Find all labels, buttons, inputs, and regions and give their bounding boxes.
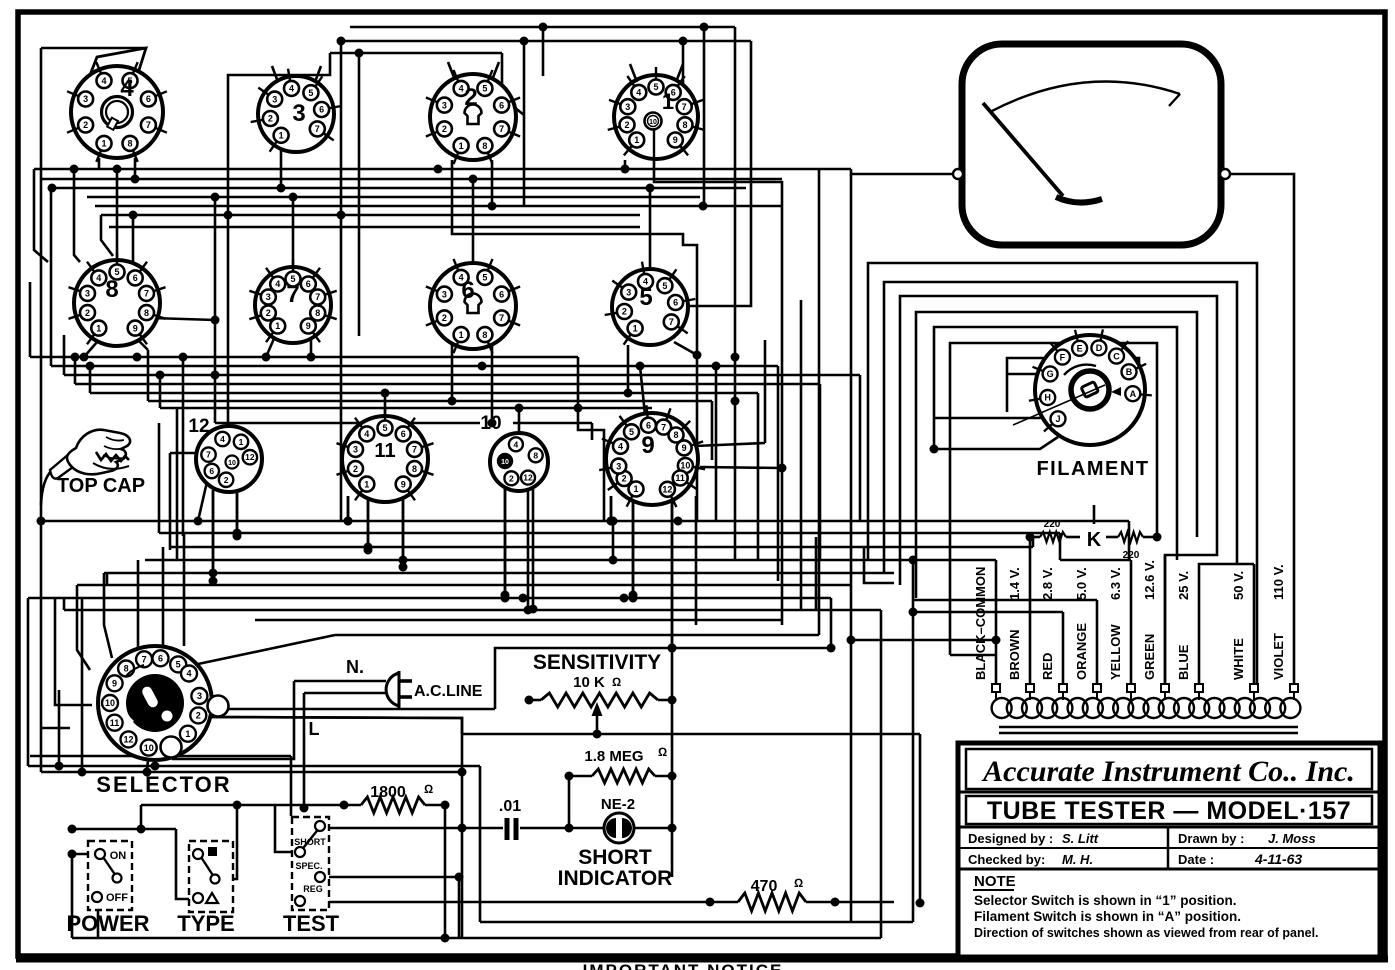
wire <box>518 408 521 433</box>
wire <box>304 901 738 904</box>
wire bus A5 <box>90 392 758 395</box>
wire <box>612 521 615 560</box>
wire bus B1 <box>41 520 1129 523</box>
wire <box>711 401 714 460</box>
svg-text:1: 1 <box>633 323 638 333</box>
socket lead <box>315 66 321 82</box>
wire <box>74 357 77 384</box>
svg-text:6: 6 <box>461 277 474 304</box>
wire <box>504 486 507 598</box>
svg-text:8: 8 <box>124 664 129 674</box>
wire <box>147 749 149 771</box>
wire <box>632 500 635 595</box>
wire <box>425 804 445 807</box>
svg-text:12: 12 <box>188 416 209 437</box>
wire <box>1093 505 1096 524</box>
svg-text:12: 12 <box>523 473 533 483</box>
svg-text:12: 12 <box>245 452 255 462</box>
wire <box>280 150 283 188</box>
svg-text:2: 2 <box>268 114 273 124</box>
wire <box>695 496 698 625</box>
wire <box>74 169 80 262</box>
wire <box>72 828 176 831</box>
svg-text:3: 3 <box>292 100 305 127</box>
title block <box>958 743 1380 957</box>
wire bus B7 <box>28 597 831 600</box>
wire <box>97 904 100 938</box>
wire bus R3 <box>52 187 746 190</box>
wire <box>304 692 386 695</box>
wire <box>815 537 818 610</box>
wire <box>141 804 361 807</box>
svg-text:8: 8 <box>482 330 487 340</box>
wire <box>1062 612 1065 685</box>
svg-text:4: 4 <box>459 84 464 94</box>
wire <box>568 776 571 828</box>
ac line plug <box>386 673 399 706</box>
tube socket 1 <box>614 75 698 159</box>
svg-text:11: 11 <box>110 718 120 728</box>
wire <box>335 634 819 637</box>
top cap hand <box>50 448 84 479</box>
svg-text:9: 9 <box>306 321 311 331</box>
wire top bus 3 <box>330 52 502 55</box>
wire <box>764 340 767 443</box>
svg-text:J: J <box>1056 414 1061 424</box>
wire <box>452 160 697 521</box>
svg-text:6: 6 <box>673 298 678 308</box>
wire <box>72 854 94 938</box>
wire <box>158 423 161 533</box>
svg-text:8: 8 <box>412 464 417 474</box>
wire <box>462 733 920 736</box>
wire <box>444 805 447 938</box>
wire <box>777 366 780 581</box>
wire k-net <box>1030 536 1040 539</box>
wire <box>913 599 1097 602</box>
svg-text:1.8 MEG: 1.8 MEG <box>584 748 643 765</box>
wire <box>326 876 459 879</box>
wire <box>819 384 822 560</box>
wire <box>542 27 545 76</box>
wire <box>930 445 939 454</box>
svg-text:POWER: POWER <box>66 911 149 936</box>
wire <box>480 921 913 924</box>
wire socket1 pin10 lead <box>653 128 655 158</box>
svg-text:6: 6 <box>146 94 151 104</box>
svg-text:5: 5 <box>662 281 667 291</box>
resistor 220 (left) <box>1040 532 1066 542</box>
svg-text:6: 6 <box>133 273 138 283</box>
svg-text:470: 470 <box>751 878 778 895</box>
svg-text:7: 7 <box>412 445 417 455</box>
type switch <box>189 841 233 912</box>
wire <box>176 408 179 560</box>
svg-text:2: 2 <box>625 120 630 130</box>
svg-text:RED: RED <box>1040 653 1055 680</box>
wire <box>520 827 604 830</box>
svg-text:2.8 V.: 2.8 V. <box>1040 567 1055 600</box>
svg-text:SHORT: SHORT <box>294 837 326 847</box>
wire <box>850 640 853 922</box>
svg-text:2: 2 <box>83 120 88 130</box>
svg-text:3: 3 <box>616 461 621 471</box>
wire <box>236 490 239 536</box>
svg-text:BROWN: BROWN <box>1007 629 1022 680</box>
wire <box>672 647 831 650</box>
wire <box>290 756 293 816</box>
socket lead <box>676 64 683 82</box>
wire <box>266 334 276 357</box>
svg-text:1: 1 <box>662 89 674 114</box>
svg-text:5: 5 <box>482 84 487 94</box>
wire <box>458 824 467 833</box>
wire bus A1 <box>30 356 578 359</box>
wire sens wiper <box>596 716 599 734</box>
svg-text:Ω: Ω <box>794 876 803 890</box>
wire <box>671 648 674 700</box>
svg-text:Direction of switches shown as: Direction of switches shown as viewed fr… <box>974 926 1319 940</box>
svg-text:IMPORTANT NOTICE: IMPORTANT NOTICE <box>583 961 784 970</box>
wire <box>50 188 53 366</box>
wire bus A7 <box>160 407 652 410</box>
svg-text:7: 7 <box>286 281 299 308</box>
wire <box>523 41 526 206</box>
wire nest 1 <box>868 263 1257 685</box>
svg-text:9: 9 <box>673 135 678 145</box>
wire <box>402 498 405 560</box>
wire <box>610 496 613 521</box>
tube socket 7 <box>255 267 331 343</box>
wire bus R4 <box>87 196 700 199</box>
wire bus B5 <box>104 572 894 575</box>
wire <box>34 169 48 262</box>
svg-text:12.6 V.: 12.6 V. <box>1142 560 1157 600</box>
wire <box>63 335 66 375</box>
wire <box>1130 560 1133 685</box>
tube socket 10 <box>490 433 548 491</box>
svg-text:8: 8 <box>533 450 538 460</box>
wire <box>913 611 1063 614</box>
svg-text:11: 11 <box>675 473 685 483</box>
wire <box>176 829 203 899</box>
svg-text:10 K: 10 K <box>573 674 605 691</box>
svg-text:A.C.LINE: A.C.LINE <box>414 683 483 700</box>
wire <box>326 827 503 830</box>
wire bus A8 <box>215 422 480 425</box>
svg-text:8: 8 <box>105 276 118 303</box>
svg-text:4: 4 <box>96 273 101 283</box>
wire nest 4 <box>916 312 1197 598</box>
svg-text:4: 4 <box>289 84 294 94</box>
wire y756 <box>30 755 291 758</box>
wire nest 5 <box>934 327 1177 560</box>
svg-text:7: 7 <box>146 120 151 130</box>
svg-text:NE-2: NE-2 <box>601 796 635 813</box>
wire <box>133 353 142 362</box>
wire <box>27 598 30 766</box>
tube socket 3 <box>258 76 334 152</box>
svg-text:4: 4 <box>120 75 134 102</box>
svg-text:M. H.: M. H. <box>1062 852 1093 867</box>
wire <box>29 282 32 357</box>
wire <box>1096 600 1099 685</box>
wire <box>384 393 387 416</box>
svg-text:8: 8 <box>674 430 679 440</box>
wire <box>509 103 524 115</box>
socket lead <box>448 62 455 80</box>
wire <box>703 27 706 206</box>
wire <box>654 126 782 625</box>
svg-text:SENSITIVITY: SENSITIVITY <box>533 651 661 674</box>
wire <box>818 169 821 635</box>
wire <box>472 179 475 265</box>
wire nest 2 <box>884 282 1237 685</box>
svg-text:1800: 1800 <box>370 784 406 801</box>
wire y768 <box>28 765 480 768</box>
socket 4 grid-cap flag <box>90 48 146 75</box>
wire bus R5 <box>95 205 782 208</box>
svg-text:9: 9 <box>112 678 117 688</box>
svg-text:3: 3 <box>85 289 90 299</box>
svg-text:10: 10 <box>649 119 657 126</box>
wire <box>224 805 237 879</box>
wire top bus 2 <box>341 40 751 43</box>
wire <box>72 937 881 940</box>
wire <box>1055 343 1062 356</box>
svg-text:7: 7 <box>144 289 149 299</box>
socket lead <box>272 66 278 82</box>
wire <box>880 610 883 938</box>
svg-text:2: 2 <box>353 464 358 474</box>
wire <box>578 357 604 521</box>
svg-text:5.0 V.: 5.0 V. <box>1074 567 1089 600</box>
resistor 220 (right) <box>1118 532 1143 542</box>
wire <box>624 160 627 169</box>
wire <box>693 351 702 360</box>
wire bus R7 <box>109 226 640 229</box>
svg-text:3: 3 <box>625 102 630 112</box>
svg-text:6: 6 <box>401 429 406 439</box>
svg-text:5: 5 <box>176 660 181 670</box>
wire <box>851 639 996 642</box>
svg-text:6: 6 <box>209 466 214 476</box>
wire <box>859 375 862 520</box>
svg-text:2: 2 <box>622 474 627 484</box>
wire <box>706 898 715 907</box>
svg-text:6: 6 <box>319 105 324 115</box>
wire <box>671 776 674 828</box>
wire <box>340 41 343 521</box>
wire <box>495 648 672 709</box>
wire <box>140 805 143 829</box>
wire <box>501 53 504 88</box>
wire <box>137 560 140 650</box>
wire <box>41 727 70 730</box>
wire meter right <box>1228 174 1294 685</box>
wire <box>182 357 185 536</box>
svg-text:7: 7 <box>499 313 504 323</box>
svg-text:9: 9 <box>641 432 654 459</box>
wire <box>58 690 61 766</box>
svg-text:6: 6 <box>646 420 651 430</box>
socket lead <box>492 62 499 80</box>
wire <box>491 160 494 206</box>
svg-text:4: 4 <box>618 441 623 451</box>
wire <box>104 573 112 658</box>
wire <box>1253 564 1256 685</box>
wire <box>1032 537 1035 547</box>
wire bus B8 <box>64 609 881 612</box>
svg-text:7: 7 <box>315 124 320 134</box>
wire <box>627 345 630 393</box>
wire <box>1029 537 1032 685</box>
svg-text:2: 2 <box>509 473 514 483</box>
wire <box>1128 521 1131 560</box>
wire <box>236 490 239 533</box>
wire <box>912 560 915 922</box>
wire <box>402 498 405 567</box>
wire <box>152 318 215 320</box>
svg-text:3: 3 <box>266 292 271 302</box>
svg-text:10: 10 <box>228 460 236 467</box>
svg-text:D: D <box>1096 343 1103 353</box>
wire <box>1066 536 1080 539</box>
wire <box>41 771 462 774</box>
wire <box>170 452 217 455</box>
tube socket 11 <box>342 416 428 502</box>
wire <box>950 654 996 657</box>
wire <box>504 486 507 595</box>
svg-text:F: F <box>1060 352 1066 362</box>
wire <box>55 598 92 705</box>
svg-text:Ω: Ω <box>424 782 433 796</box>
power switch <box>88 841 132 910</box>
wire <box>688 41 751 306</box>
wire <box>513 422 592 425</box>
svg-text:N.: N. <box>346 657 364 677</box>
svg-text:10: 10 <box>680 461 690 471</box>
svg-text:L: L <box>309 719 320 739</box>
svg-text:8: 8 <box>682 120 687 130</box>
svg-text:Selector Switch is shown in “1: Selector Switch is shown in “1” position… <box>974 893 1237 908</box>
wire <box>212 490 215 581</box>
svg-text:10: 10 <box>144 743 154 753</box>
svg-text:OFF: OFF <box>106 892 128 904</box>
wire <box>63 598 66 610</box>
svg-text:7: 7 <box>669 317 674 327</box>
svg-text:G: G <box>1047 369 1054 379</box>
svg-text:FILAMENT: FILAMENT <box>1036 458 1149 480</box>
wire <box>77 585 90 670</box>
wire <box>84 342 97 357</box>
svg-text:5: 5 <box>639 284 652 311</box>
svg-text:10: 10 <box>105 698 115 708</box>
svg-text:SPEC.: SPEC. <box>295 861 322 871</box>
svg-text:3: 3 <box>442 100 447 110</box>
svg-text:9: 9 <box>133 323 138 333</box>
wire <box>106 573 109 585</box>
wire <box>347 496 350 521</box>
svg-text:220: 220 <box>1044 519 1061 530</box>
wire <box>183 533 186 646</box>
svg-text:2: 2 <box>464 84 477 111</box>
svg-text:2: 2 <box>266 308 271 318</box>
wire bus A3 <box>64 374 860 377</box>
wire bus B2 <box>159 532 1060 535</box>
wire bus B3 <box>170 546 1033 549</box>
wire bus R6 <box>101 214 640 217</box>
wire <box>37 517 46 526</box>
svg-text:2: 2 <box>442 124 447 134</box>
wire <box>610 496 613 521</box>
svg-text:2: 2 <box>85 308 90 318</box>
svg-text:5: 5 <box>629 427 634 437</box>
wire nest 6 <box>950 343 1157 655</box>
wire <box>292 197 295 268</box>
wire <box>1143 536 1157 539</box>
svg-text:1: 1 <box>459 330 464 340</box>
svg-text:4: 4 <box>101 76 106 86</box>
wire meter left <box>851 169 955 174</box>
wire <box>591 423 594 440</box>
wire <box>569 775 592 778</box>
tube socket 4 <box>71 66 163 158</box>
svg-text:7: 7 <box>315 292 320 302</box>
svg-text:NOTE: NOTE <box>974 873 1016 890</box>
svg-text:4: 4 <box>514 439 519 449</box>
wire <box>458 877 461 938</box>
svg-text:6: 6 <box>158 654 163 664</box>
svg-text:6.3 V.: 6.3 V. <box>1108 567 1123 600</box>
wire <box>479 766 482 922</box>
svg-text:4-11-63: 4-11-63 <box>1254 851 1302 867</box>
svg-text:6: 6 <box>499 289 504 299</box>
wire <box>347 496 350 521</box>
svg-text:3: 3 <box>442 289 447 299</box>
svg-text:1: 1 <box>185 729 190 739</box>
selector rotary switch <box>98 646 212 760</box>
svg-text:5: 5 <box>482 273 487 283</box>
tube socket 2 <box>430 74 516 160</box>
wire bus B4 <box>145 559 996 562</box>
svg-text:220: 220 <box>1123 550 1140 561</box>
wire top bus 1 <box>350 26 735 29</box>
wire <box>671 502 674 648</box>
wire <box>1007 373 1050 376</box>
wire <box>138 340 148 350</box>
tube socket 12 <box>196 426 262 492</box>
wire <box>134 158 137 179</box>
svg-text:8: 8 <box>128 139 133 149</box>
wire <box>806 901 894 904</box>
wire bus B6 <box>77 584 851 587</box>
wire <box>367 498 370 547</box>
svg-text:Ω: Ω <box>612 675 621 689</box>
svg-text:J. Moss: J. Moss <box>1268 831 1316 846</box>
wire <box>695 443 765 446</box>
svg-text:7: 7 <box>142 655 147 665</box>
wire <box>116 169 119 262</box>
svg-text:11: 11 <box>374 440 395 462</box>
svg-text:TUBE TESTER — MODEL·157: TUBE TESTER — MODEL·157 <box>987 797 1351 825</box>
wire <box>634 827 672 830</box>
wire <box>532 486 535 609</box>
wire <box>81 598 84 772</box>
wire <box>682 41 685 100</box>
wire <box>169 453 172 550</box>
wire <box>715 366 718 521</box>
